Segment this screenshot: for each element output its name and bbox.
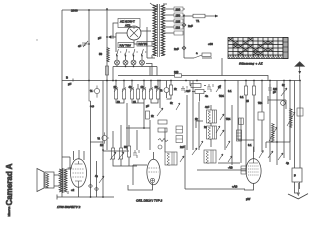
transformer T1 secondary xyxy=(161,5,164,56)
node r1 xyxy=(276,141,278,143)
node h128 xyxy=(143,127,145,129)
node ladder j xyxy=(245,80,247,82)
IF T3 arrows xyxy=(180,156,184,162)
svg-text:50: 50 xyxy=(99,52,103,56)
tap box 220 xyxy=(174,7,183,11)
resistor row R6 xyxy=(123,89,126,99)
tap wire 2 xyxy=(164,14,185,16)
switch S5 xyxy=(194,55,202,58)
switch S3 xyxy=(133,49,135,56)
arrow h1 xyxy=(216,126,220,133)
lamp E4 cross xyxy=(140,61,143,64)
wire vertical grid xyxy=(106,9,108,150)
wire mains xyxy=(185,15,218,17)
tap box 150 xyxy=(174,13,183,17)
wire v187 xyxy=(186,95,188,150)
resistor row R9 xyxy=(143,89,146,99)
svg-text:P.IV TGV: P.IV TGV xyxy=(120,44,132,48)
svg-text:110: 110 xyxy=(176,25,181,29)
tube V3 anode xyxy=(249,159,258,163)
node j4 xyxy=(183,15,185,17)
mid cluster wires xyxy=(103,125,137,166)
node v103 xyxy=(102,149,104,151)
node bus j6 xyxy=(106,80,108,82)
box right column xyxy=(297,108,303,116)
wires resistor row tops xyxy=(116,81,158,90)
speaker wires xyxy=(54,168,72,194)
ladder pot circle xyxy=(281,101,286,106)
rectifier label box U1 xyxy=(118,19,140,28)
svg-text:4n: 4n xyxy=(205,94,209,98)
cap box C8 xyxy=(146,111,150,119)
node bus b1 xyxy=(90,196,92,198)
antenna arrowhead xyxy=(298,71,301,74)
node j1b xyxy=(88,9,90,11)
svg-text:0.1: 0.1 xyxy=(240,96,244,99)
resistor row arrows xyxy=(114,87,160,92)
ground chassis xyxy=(288,194,308,199)
lamp E1 cross xyxy=(115,61,118,64)
antenna fill xyxy=(296,62,304,66)
box h3 xyxy=(239,118,244,125)
mid cluster resistor R19 xyxy=(120,148,123,159)
wire h128b xyxy=(126,120,150,150)
wire T1 top xyxy=(150,3,167,10)
svg-text:µ: µ xyxy=(294,173,296,177)
IF T3 core xyxy=(172,152,174,165)
wire rect bottom xyxy=(134,27,155,58)
wire v103 down xyxy=(102,150,104,197)
tap box 125 xyxy=(174,19,183,23)
switch S1 xyxy=(116,49,118,56)
vertical x127 xyxy=(127,103,144,150)
wire rect to transformer xyxy=(113,23,151,52)
wire h128 xyxy=(121,125,165,152)
wire v93 down xyxy=(91,101,97,197)
output transformer T5 core xyxy=(63,168,64,193)
box elec C9 xyxy=(237,130,242,141)
wavy resistor xyxy=(158,139,168,142)
svg-text:Camerad A: Camerad A xyxy=(5,163,14,205)
wires R21 R22 xyxy=(167,81,172,100)
lamp E3 cross xyxy=(132,61,135,64)
bottom right bus2 xyxy=(185,188,245,190)
tap wire 1 xyxy=(164,8,185,10)
node bus j5 xyxy=(88,80,90,82)
svg-text:2nF: 2nF xyxy=(174,47,179,51)
wire vertical B xyxy=(88,10,90,80)
tube V2 inner xyxy=(149,168,159,172)
svg-text:220: 220 xyxy=(176,7,181,11)
mid cluster resistor R20 xyxy=(128,146,131,157)
row2 resistor R12 xyxy=(191,84,201,88)
lamp E3 xyxy=(131,60,136,65)
wire bottom mid link xyxy=(90,141,103,143)
wire v185 xyxy=(184,145,186,189)
lamp E1 xyxy=(115,60,120,65)
svg-text:µW: µW xyxy=(246,197,251,201)
svg-text:150: 150 xyxy=(176,13,181,17)
tube V2 xyxy=(147,159,160,185)
IF T4 core xyxy=(211,150,213,163)
lamp E2 cross xyxy=(124,61,127,64)
svg-text:µF: µF xyxy=(146,105,149,108)
left IF components xyxy=(159,81,161,109)
mid cluster cap C7 xyxy=(133,150,139,158)
wire right links xyxy=(266,96,290,148)
pot P3 circle xyxy=(164,88,169,93)
IF can T2 lower xyxy=(207,126,217,139)
speaker coil box xyxy=(45,172,54,188)
IF T2 arrows xyxy=(220,114,224,136)
trimmer arrow3 xyxy=(157,108,163,116)
svg-text:1000: 1000 xyxy=(71,8,78,12)
tap wire 4 xyxy=(164,26,174,28)
svg-text:1M: 1M xyxy=(100,144,103,147)
switch S4 xyxy=(141,49,143,56)
capacitor C10 diamond xyxy=(89,184,93,188)
capacitor C3 xyxy=(182,23,186,27)
electrolytic cap box xyxy=(292,168,302,182)
tick on bus xyxy=(72,79,74,82)
node j2 xyxy=(106,8,108,10)
tube V0 rectifier xyxy=(127,26,141,40)
wire lamp bus xyxy=(113,56,157,81)
tap box 110 xyxy=(174,25,183,29)
tube V2 pin cross xyxy=(151,179,154,182)
svg-text:T1: T1 xyxy=(196,19,200,23)
wire main bus xyxy=(62,80,300,82)
svg-text:pF: pF xyxy=(273,91,276,94)
tube V2 loop xyxy=(128,183,153,190)
inductor L1 xyxy=(107,48,110,62)
IF T2 core2 xyxy=(213,126,215,139)
ladder trimmer arrow2 xyxy=(281,88,287,96)
capacitor C11 diamond xyxy=(95,187,99,191)
capacitor C2 xyxy=(107,35,116,39)
row2 capacitor C5 xyxy=(207,84,213,92)
cap box wires xyxy=(295,182,300,193)
resistor row R10 xyxy=(150,89,153,99)
wire V2 left xyxy=(133,165,147,185)
wires resistor row bottoms xyxy=(116,99,158,103)
capacitor C12 xyxy=(181,86,187,93)
svg-text:0.1: 0.1 xyxy=(228,90,232,93)
wire right mid links xyxy=(238,140,254,170)
bus dots xyxy=(185,80,187,82)
resistor row R11 xyxy=(157,89,160,99)
arrow g2 xyxy=(199,141,203,148)
box pair B1 xyxy=(176,126,183,133)
IF T4 arrows xyxy=(219,154,232,162)
wire v103 xyxy=(102,81,104,151)
wire v113 xyxy=(110,36,116,38)
svg-text:Minerva: Minerva xyxy=(7,206,11,216)
tube V3 wires xyxy=(244,147,254,190)
trimmer arrow V1 xyxy=(99,176,104,183)
scan speck xyxy=(36,39,37,40)
ladder resistor R15 xyxy=(252,86,255,95)
lamp stub dots xyxy=(116,55,118,57)
resistor R2 mains xyxy=(193,14,205,18)
output transformer T5 left xyxy=(59,169,62,192)
IF T2 lower coil xyxy=(208,127,211,140)
box C9 hatch xyxy=(237,133,242,139)
right ladder wires xyxy=(238,81,300,171)
resistor row R7 xyxy=(131,89,134,99)
svg-text:-AB: -AB xyxy=(228,166,233,170)
svg-text:0.1: 0.1 xyxy=(248,144,252,147)
tube V1 cathode xyxy=(75,181,82,187)
mid trimmer xyxy=(110,152,124,160)
mid cluster resistor R18 xyxy=(112,148,115,159)
terminal plug xyxy=(215,15,218,18)
corner wire xyxy=(196,121,203,128)
IF can T2 upper xyxy=(207,110,217,123)
pot P2 stub xyxy=(105,132,110,143)
box R17 xyxy=(158,128,167,132)
capacitor trimmer C1 xyxy=(83,41,89,47)
svg-text:+AB: +AB xyxy=(232,185,237,189)
coil L2 arrow xyxy=(269,127,277,141)
trimmer cluster a xyxy=(192,148,197,155)
tap box b5 xyxy=(174,31,183,35)
wire bottom-left bus xyxy=(57,195,114,200)
misc wire top right of lamps xyxy=(146,64,152,76)
IF T2 core xyxy=(213,110,215,123)
node bus b2 xyxy=(102,196,104,198)
node R21 xyxy=(170,80,172,82)
ladder cap C6 xyxy=(268,84,272,94)
tap wire 3 xyxy=(164,20,174,22)
V3 side box hatch xyxy=(241,169,247,172)
IF can T3 xyxy=(165,152,177,165)
svg-text:µF: µF xyxy=(68,82,72,86)
output transformer T5 right xyxy=(64,169,67,192)
svg-text:4nF: 4nF xyxy=(205,106,210,109)
tube V3 xyxy=(246,159,261,184)
trimmer cluster c xyxy=(278,153,283,160)
IF T2 wires xyxy=(210,105,212,147)
tube V3 grids xyxy=(248,166,259,175)
connection table grid xyxy=(228,38,288,59)
trimmer cluster b xyxy=(268,151,273,158)
lower IF can T4 xyxy=(204,150,216,163)
row2 resistor R13 xyxy=(195,90,204,94)
tube V1 output xyxy=(71,159,87,187)
pot P2 xyxy=(102,135,107,140)
tube V2 pin circle xyxy=(150,178,154,182)
ground stem xyxy=(297,183,300,196)
svg-text:4nF: 4nF xyxy=(186,90,191,93)
tube V1 grid xyxy=(73,169,85,177)
svg-text:2nF: 2nF xyxy=(188,24,193,28)
wire fuse row xyxy=(184,58,222,76)
switch S2 xyxy=(125,49,127,56)
arrow h2 xyxy=(226,141,230,148)
ladder resistor R14 xyxy=(244,86,247,95)
V3 grid side box xyxy=(241,166,247,174)
node ladder j2 xyxy=(269,80,271,82)
svg-text:+2: +2 xyxy=(71,188,75,192)
box 100 xyxy=(258,112,264,120)
capacitor C4 xyxy=(182,46,186,50)
box pair hatch xyxy=(176,130,183,140)
resistor R22 xyxy=(169,85,172,95)
coil L3 arrow xyxy=(287,112,295,126)
wire v184 xyxy=(183,16,185,58)
tube V1 anode xyxy=(75,161,83,164)
node j1 xyxy=(88,43,90,45)
resistor row R5 xyxy=(115,89,118,99)
elbow wire left xyxy=(62,157,70,170)
dial label box xyxy=(118,43,134,48)
coil var L3 xyxy=(290,109,293,128)
row2 trimmer arrow xyxy=(216,85,221,92)
svg-text:aF: aF xyxy=(78,44,82,48)
svg-text:B: B xyxy=(66,76,68,80)
transformer T1 primary xyxy=(153,5,156,56)
lamp E4 xyxy=(140,60,145,65)
arrow g1 xyxy=(176,103,180,110)
coil var L2 xyxy=(272,124,275,143)
IF T4 coil xyxy=(206,151,209,164)
mid verticals xyxy=(193,81,232,166)
tube V0 electrodes xyxy=(130,26,138,37)
misc arrows near lamps xyxy=(120,51,146,53)
box pair B2 xyxy=(176,136,183,143)
tube V1 wires up xyxy=(74,150,85,160)
svg-text:½%: ½% xyxy=(219,94,224,98)
node bus j7 xyxy=(112,80,114,82)
wire h163 xyxy=(218,118,241,163)
svg-text:125: 125 xyxy=(176,19,181,23)
node j3 xyxy=(106,36,108,38)
circle comp xyxy=(158,145,162,149)
speaker coil zigzag xyxy=(46,174,48,188)
square terminal xyxy=(109,36,111,38)
pot P1 xyxy=(94,88,99,93)
arrow i1 xyxy=(259,151,264,159)
tap wire 5 xyxy=(164,32,174,34)
svg-text:+30: +30 xyxy=(208,42,213,46)
wire upper mid bus xyxy=(118,76,268,81)
antenna xyxy=(295,62,304,81)
svg-text:2nF: 2nF xyxy=(180,146,185,149)
pot P1 wire xyxy=(89,81,97,102)
wire top bus xyxy=(62,9,157,11)
resistor R3 xyxy=(202,53,211,56)
svg-text:pF: pF xyxy=(98,36,102,40)
lamp E2 xyxy=(123,60,128,65)
svg-text:C/KL DBLN I TYP 2: C/KL DBLN I TYP 2 xyxy=(136,199,163,203)
svg-text:220: 220 xyxy=(174,70,179,74)
svg-text:1798 530/4ETV 2: 1798 530/4ETV 2 xyxy=(57,205,81,209)
row bus dots xyxy=(115,80,117,82)
IF T2 upper coil xyxy=(208,111,211,124)
IF T3 coil xyxy=(167,153,170,166)
svg-text:Stimmung + AZ: Stimmung + AZ xyxy=(239,62,263,66)
node ladder j3 xyxy=(289,80,291,82)
svg-text:P.IV TG: P.IV TG xyxy=(139,42,148,46)
row2 wires xyxy=(190,81,206,102)
transformer T1 core xyxy=(158,4,160,57)
resistor R1 xyxy=(106,66,109,75)
lamp bus dots xyxy=(125,66,127,68)
tube V1 bottom wire xyxy=(78,188,80,198)
wire left vertical xyxy=(61,10,63,197)
resistor row R8 xyxy=(137,89,140,99)
resistor R4 on bus xyxy=(175,74,182,77)
dial label box 2 xyxy=(137,42,152,47)
tube V2 top wire xyxy=(153,152,155,159)
bottom right bus1 xyxy=(197,169,246,171)
speaker cone xyxy=(37,169,44,192)
box R16 xyxy=(158,120,167,124)
